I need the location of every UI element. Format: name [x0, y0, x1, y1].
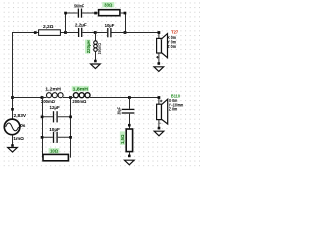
wire: C2 to node C [82, 32, 95, 34]
node: R2 right pin dot [124, 12, 127, 15]
wire: bottom row source to L2 [12, 97, 43, 99]
svg-text:33Ω: 33Ω [104, 3, 112, 9]
svg-text:1,5Ω: 1,5Ω [120, 134, 125, 144]
node: dot above T27 ground [158, 62, 161, 65]
node: junction dot bottom row at left rail [11, 96, 14, 99]
capacitor C5 10uF [42, 127, 71, 143]
wire: R2 down to second row [120, 13, 126, 33]
resistor R2 33 ohm (highlighted) [99, 2, 120, 16]
capacitor C6 39uF (shunt) [117, 107, 135, 114]
svg-text:12µF: 12µF [50, 105, 60, 111]
node: dot C4 left rail [41, 116, 44, 119]
inductor L2 1,2mH [41, 87, 71, 105]
node: pin dot between C1 and R2 [94, 12, 97, 15]
node: dot above B110 ground [158, 127, 161, 130]
voltage source V1 [4, 113, 26, 142]
ground: source [8, 148, 18, 153]
wire: C3 to T27 corner [112, 33, 159, 39]
wire: R4 to ground [129, 152, 131, 157]
node: pin dot between C6 and R4 [128, 124, 131, 127]
wire: B110 to ground [158, 120, 160, 129]
svg-text:220µH: 220µH [86, 40, 91, 54]
capacitor C2 2,2uF [75, 23, 87, 38]
svg-text:1mΩ: 1mΩ [13, 136, 24, 142]
svg-text:10µF: 10µF [49, 127, 60, 133]
node: junction dot L2 left / ladder left rail [41, 96, 44, 99]
wire: node C to C3 [95, 32, 107, 34]
svg-text:Z 0m: Z 0m [169, 107, 178, 112]
svg-text:200mΩ: 200mΩ [41, 99, 55, 104]
inductor L3 1,8mH (highlighted) [71, 86, 96, 104]
ground: shunt coil [91, 64, 101, 69]
node: dot above source ground [11, 144, 14, 147]
node: corner dot at top of node B riser [64, 12, 67, 15]
node: dot C5 left rail [41, 136, 44, 139]
speaker U1 T27 tweeter [156, 30, 178, 59]
svg-text:Z 0m: Z 0m [167, 44, 176, 49]
resistor R4 1,5 ohm (highlighted, vertical) [120, 129, 133, 152]
svg-text:150mΩ: 150mΩ [97, 43, 102, 55]
node: junction dot where 33 ohm branch meets row 2 [124, 31, 127, 34]
wire: ladder left rail [42, 98, 44, 158]
node: dot above shunt coil ground [94, 60, 97, 63]
node: corner dot at T27 riser [158, 31, 161, 34]
ground: T27 [154, 67, 164, 72]
svg-text:560nF: 560nF [74, 3, 84, 8]
node: junction dot shunt branch bottom row [128, 96, 131, 99]
node: source top pin dot [11, 108, 14, 111]
ground: shunt RC branch [125, 160, 135, 165]
capacitor C1 560nF [74, 3, 84, 17]
svg-text:2,2Ω: 2,2Ω [43, 24, 54, 30]
wire: left rail from top row down to source [12, 33, 14, 120]
wire: top feed from left rail to R1 [12, 32, 39, 34]
capacitor C4 12uF [42, 105, 71, 122]
svg-text:10Ω: 10Ω [50, 149, 58, 155]
svg-text:39µF: 39µF [117, 107, 122, 114]
wire: R1 to node B [60, 32, 65, 34]
node: dot above shunt ground [128, 155, 131, 158]
svg-text:2,83V: 2,83V [14, 113, 27, 119]
svg-text:10µF: 10µF [105, 23, 115, 29]
node: corner dot at B110 riser [158, 96, 161, 99]
svg-text:2,2µF: 2,2µF [75, 23, 87, 29]
resistor R3 10 ohm (highlighted) [43, 148, 68, 161]
wire: C6 to R4 [129, 114, 131, 129]
speaker U2 B110 woofer [157, 94, 184, 124]
wire: shunt branch down from bottom row [129, 98, 131, 109]
wire: T27 riser tail [158, 37, 160, 39]
svg-text:1,8mH: 1,8mH [73, 87, 89, 93]
node: dot C5 right rail [69, 136, 72, 139]
wire: node B up to top row [66, 13, 78, 33]
node B junction dot [64, 31, 67, 34]
node C junction dot [94, 31, 97, 34]
node: R1 left pin dot [34, 31, 37, 34]
node: dot C4 right rail [69, 116, 72, 119]
wire: node B to C2 [66, 32, 79, 34]
wire: source to ground [12, 135, 14, 146]
wire: T27 to ground [158, 53, 160, 64]
svg-text:1,2mH: 1,2mH [45, 87, 61, 93]
inductor L1 220uH vertical (shunt) [85, 33, 102, 62]
ground: B110 [154, 131, 164, 136]
wire: L3 to B110 corner [95, 98, 159, 105]
resistor R1 2,2 ohm [39, 24, 61, 35]
svg-text:0s: 0s [20, 123, 26, 128]
capacitor C3 10uF [105, 23, 115, 37]
svg-text:200mΩ: 200mΩ [72, 99, 86, 104]
wire: C1 to R2 [82, 12, 99, 14]
node: junction dot between L2 and L3 [69, 96, 72, 99]
wire: ladder right rail [70, 98, 72, 158]
